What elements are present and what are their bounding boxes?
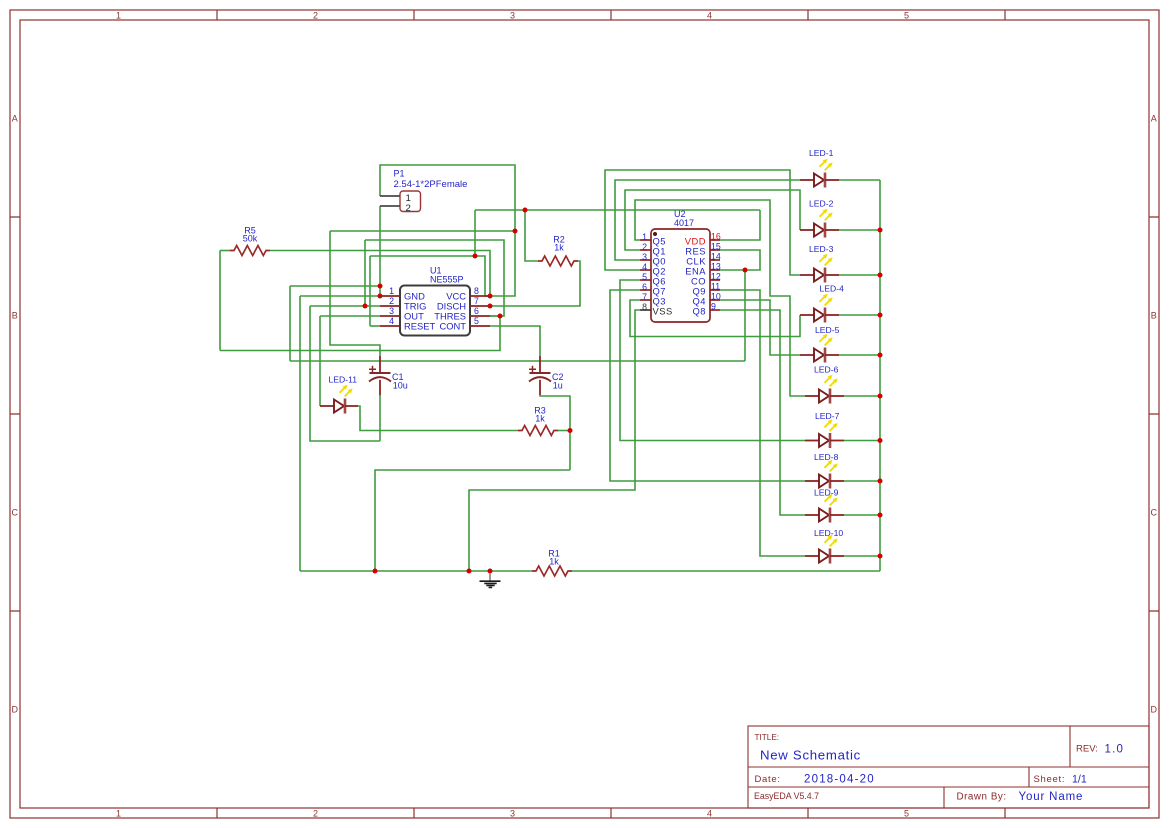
svg-text:C: C — [1150, 508, 1157, 518]
wire TRIG pin row — [310, 305, 380, 307]
svg-text:B: B — [1151, 311, 1157, 321]
LED LED-8 — [805, 460, 844, 489]
LED LED-4 — [800, 294, 839, 323]
svg-text:Sheet:: Sheet: — [1034, 774, 1066, 785]
wire x320 down to LED-11 — [319, 316, 321, 406]
svg-text:LED-10: LED-10 — [814, 528, 843, 538]
svg-text:2.54-1*2PFemale: 2.54-1*2PFemale — [394, 179, 468, 190]
U2 pins 9-16 right — [710, 232, 721, 312]
node junction ENA-RES — [743, 268, 748, 273]
node junction VDD-RESET — [473, 254, 478, 259]
svg-text:1: 1 — [389, 286, 394, 296]
svg-text:LED-8: LED-8 — [814, 452, 839, 462]
wire CONT to C2 — [490, 326, 540, 356]
node junction R2 top — [523, 208, 528, 213]
svg-text:LED-3: LED-3 — [809, 244, 834, 254]
svg-text:1u: 1u — [553, 381, 563, 391]
svg-text:8: 8 — [642, 302, 647, 312]
node junction at P1.2/ENA net — [378, 284, 383, 289]
node LED bus row 4 — [878, 313, 883, 318]
svg-text:Q8: Q8 — [692, 305, 706, 316]
wire LED-9 cathode — [844, 514, 880, 516]
svg-text:3: 3 — [510, 809, 515, 819]
wire LED-7 cathode — [844, 440, 880, 442]
svg-text:6: 6 — [474, 306, 479, 316]
node junction bus x375 — [373, 569, 378, 574]
svg-text:REV:: REV: — [1076, 744, 1098, 755]
wire RESET jog — [370, 325, 380, 327]
wire LED-8 cathode — [844, 480, 880, 482]
svg-text:7: 7 — [642, 292, 647, 302]
wire LED-5 cathode — [839, 354, 880, 356]
svg-text:5: 5 — [474, 316, 479, 326]
svg-text:2: 2 — [313, 809, 318, 819]
node LED bus row 6 — [878, 394, 883, 399]
svg-text:C: C — [11, 508, 18, 518]
svg-text:1k: 1k — [554, 243, 564, 253]
svg-text:Your Name: Your Name — [1019, 791, 1084, 803]
svg-text:A: A — [1151, 114, 1157, 124]
svg-text:NE555P: NE555P — [430, 275, 464, 285]
svg-text:14: 14 — [711, 252, 721, 262]
wire C1 bottom lead — [379, 395, 381, 441]
wire x220 down — [219, 251, 221, 351]
resistor R5 50k — [230, 226, 270, 256]
wire bottom bus left — [300, 570, 532, 572]
LED LED-11 — [320, 385, 358, 414]
svg-text:TITLE:: TITLE: — [755, 733, 780, 742]
node junction VCC tap — [513, 229, 518, 234]
LED LED-3 — [800, 254, 839, 283]
svg-text:1: 1 — [116, 809, 121, 819]
svg-text:2: 2 — [313, 11, 318, 21]
resistor R3 1k — [518, 406, 558, 436]
wire U2 pin11 Q9 — [720, 290, 805, 556]
node junction TRIG — [363, 304, 368, 309]
svg-text:A: A — [12, 114, 18, 124]
node junction DISCH pin7 — [488, 304, 493, 309]
svg-text:LED-5: LED-5 — [815, 325, 840, 335]
svg-text:4: 4 — [707, 11, 712, 21]
wire y350 THRES net across — [220, 316, 500, 351]
LED LED-7 — [805, 419, 844, 448]
LED LED-6 — [805, 375, 844, 404]
U2 pins 1-8 left — [640, 232, 651, 312]
LED LED-5 — [800, 334, 839, 363]
wire LED-11 cathode to R3 — [358, 406, 518, 431]
svg-text:Date:: Date: — [755, 774, 781, 785]
svg-text:3: 3 — [389, 306, 394, 316]
svg-text:1: 1 — [642, 232, 647, 242]
svg-text:Drawn By:: Drawn By: — [957, 792, 1007, 803]
svg-text:4017: 4017 — [674, 218, 694, 228]
svg-text:4: 4 — [707, 809, 712, 819]
capacitor C2 1u — [529, 356, 551, 395]
svg-text:1k: 1k — [535, 414, 545, 424]
svg-text:1/1: 1/1 — [1072, 774, 1087, 786]
svg-text:15: 15 — [711, 242, 721, 252]
U1 pins 5-8 right — [470, 286, 490, 326]
wire U2 pin6 Q7 — [610, 290, 805, 481]
node LED bus row 10 — [878, 554, 883, 559]
svg-text:2018-04-20: 2018-04-20 — [804, 774, 875, 786]
wire bottom bus right — [572, 570, 880, 572]
svg-text:8: 8 — [474, 286, 479, 296]
svg-text:16: 16 — [711, 232, 721, 242]
resistor R1 1k — [532, 549, 572, 577]
wire U2 pin7 Q3 — [630, 300, 800, 337]
svg-text:9: 9 — [711, 302, 716, 312]
wire x745 up to ENA dot — [744, 270, 746, 361]
wire y240 TRIG-THRES link — [365, 240, 504, 316]
U1 pin names — [404, 291, 466, 332]
svg-text:P1: P1 — [394, 169, 405, 179]
svg-text:LED-2: LED-2 — [809, 199, 834, 209]
title block — [748, 726, 1149, 808]
node LED bus row 3 — [878, 273, 883, 278]
wire y256 RESET to VCC — [370, 256, 490, 296]
wire U2 pin10 Q4 — [720, 300, 800, 355]
svg-text:LED-9: LED-9 — [814, 488, 839, 498]
svg-text:2: 2 — [642, 242, 647, 252]
node LED bus row 7 — [878, 438, 883, 443]
svg-text:D: D — [11, 705, 18, 715]
LED LED-1 — [800, 159, 839, 188]
wire U2 pin2 Q1 — [625, 190, 800, 250]
wire R2 top tap — [525, 210, 538, 261]
svg-text:5: 5 — [642, 272, 647, 282]
svg-text:1: 1 — [116, 11, 121, 21]
wire R3 right junction down-left — [375, 470, 570, 571]
wire R5 left lead — [220, 250, 230, 252]
wire R5 right to x490 — [270, 251, 490, 297]
node LED bus row 5 — [878, 353, 883, 358]
LED LED-9 — [805, 494, 844, 523]
wire LED-2 cathode — [839, 229, 880, 231]
svg-text:VSS: VSS — [653, 305, 673, 316]
wire U2 pin3 Q0 — [615, 180, 800, 260]
wire P1 pin2 down to GND node — [379, 206, 381, 296]
wire R3 right lead — [558, 430, 570, 432]
wire R2 right to DISCH — [490, 261, 580, 306]
svg-text:RESET: RESET — [404, 321, 436, 332]
svg-text:13: 13 — [711, 262, 721, 272]
wire y286 ENA net to x380 — [290, 285, 380, 287]
resistor R2 1k — [538, 235, 578, 267]
svg-text:3: 3 — [642, 252, 647, 262]
node LED bus row 9 — [878, 513, 883, 518]
wire LED-1 cathode — [839, 179, 880, 181]
IC U2 4017 body — [651, 209, 710, 322]
svg-text:1.0: 1.0 — [1105, 744, 1125, 756]
svg-text:1k: 1k — [549, 557, 559, 567]
svg-text:50k: 50k — [243, 234, 258, 244]
op-amp U1 NE555P body — [400, 266, 470, 336]
node junction bus VSS — [467, 569, 472, 574]
ground symbol — [480, 574, 501, 588]
wire x330 down to C1 plus — [330, 231, 380, 356]
svg-text:4: 4 — [642, 262, 647, 272]
svg-text:LED-7: LED-7 — [815, 411, 840, 421]
svg-text:6: 6 — [642, 282, 647, 292]
wire x475 VDD drop — [474, 210, 476, 256]
wire LED-4 cathode — [839, 314, 880, 316]
wire OUT pin row — [320, 315, 380, 317]
svg-text:12: 12 — [711, 272, 721, 282]
svg-text:D: D — [1150, 705, 1157, 715]
node junction R3 right — [568, 428, 573, 433]
wire GND pin to x300 — [300, 295, 380, 297]
svg-text:2: 2 — [406, 203, 411, 214]
wire x310 down to C1 jog — [310, 306, 380, 441]
wire LED cathode bus — [879, 180, 881, 571]
node LED bus row 8 — [878, 479, 883, 484]
svg-text:4: 4 — [389, 316, 394, 326]
wire x365 down to TRIG dot — [364, 240, 366, 306]
wire LED-3 cathode — [839, 274, 880, 276]
wire y231 VCC tap — [330, 230, 515, 232]
svg-text:10: 10 — [711, 292, 721, 302]
svg-text:LED-1: LED-1 — [809, 148, 834, 158]
svg-text:5: 5 — [904, 11, 909, 21]
svg-text:EasyEDA V5.4.7: EasyEDA V5.4.7 — [754, 791, 819, 801]
connector P1 2.54-1*2PFemale — [380, 169, 467, 215]
U1 pins 1-4 left — [380, 286, 400, 326]
wire U2 pin1 Q5 — [635, 200, 805, 396]
wire U2 pin15 RES loop — [720, 250, 760, 270]
svg-text:11: 11 — [711, 282, 720, 292]
node junction VCC pin8 — [488, 294, 493, 299]
svg-text:10u: 10u — [393, 381, 408, 391]
LED LED-2 — [800, 209, 839, 238]
wire x290 down — [289, 286, 291, 361]
wire U2 pin16 VDD — [720, 210, 760, 240]
wire x300 down to bottom bus — [299, 296, 301, 571]
U2 pin names — [653, 235, 707, 316]
node junction bus ground — [488, 569, 493, 574]
node junction GND pin — [378, 294, 383, 299]
wire y210 VDD rail — [475, 209, 760, 211]
svg-text:2: 2 — [389, 296, 394, 306]
node LED bus row 2 — [878, 228, 883, 233]
wire LED-6 cathode — [844, 395, 880, 397]
wire C2 bottom jog — [540, 395, 570, 470]
wire U2 pin4 Q2 — [605, 170, 800, 275]
wire LED-10 cathode — [844, 555, 880, 557]
svg-text:New Schematic: New Schematic — [760, 748, 861, 763]
wire U2 pin9 Q8 — [720, 310, 805, 515]
svg-text:B: B — [12, 311, 18, 321]
svg-text:7: 7 — [474, 296, 479, 306]
LED LED-10 — [805, 535, 844, 564]
svg-text:5: 5 — [904, 809, 909, 819]
svg-text:LED-11: LED-11 — [329, 374, 358, 384]
svg-text:3: 3 — [510, 11, 515, 21]
node junction THRES pin6 — [498, 314, 503, 319]
wire y361 ENA net across — [290, 360, 745, 362]
wire P1 pin1 to VCC rail — [380, 165, 515, 296]
wire x370 up from RESET — [369, 256, 371, 326]
capacitor C1 10u — [369, 356, 391, 395]
svg-text:LED-6: LED-6 — [814, 365, 839, 375]
svg-text:LED-4: LED-4 — [820, 284, 845, 294]
wire U2 pin5 Q6 — [620, 280, 805, 441]
svg-text:CONT: CONT — [439, 321, 466, 332]
wire VSS net down — [469, 310, 640, 571]
